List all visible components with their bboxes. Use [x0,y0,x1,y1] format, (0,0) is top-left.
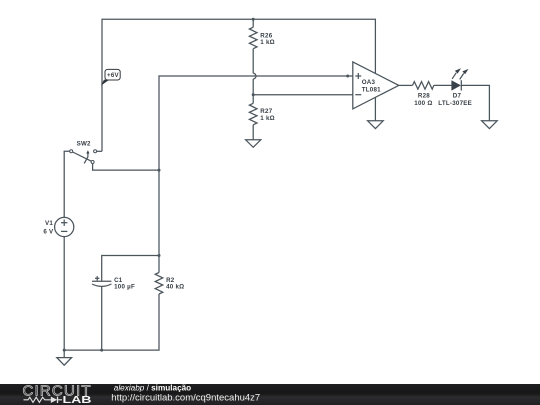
wire SW2 right to +6V vertical [97,150,102,152]
wire R26 bottom with hop over +input wire [252,49,254,74]
ground right of LED [482,121,498,129]
wire top rail +6V to op-amp V+ [102,19,375,151]
ground under R27 [246,140,261,148]
switch lever [73,152,92,161]
svg-text:SW2: SW2 [77,140,91,147]
wire R27 to ground [252,125,254,140]
resistor R28 [413,82,434,90]
wire noninverting input from node corner [159,76,353,170]
node dot C1/R2 top [158,254,161,257]
svg-text:1 kΩ: 1 kΩ [260,115,275,122]
node dot at op-amp + input [346,75,349,78]
logo diode [51,397,57,403]
wire C1 bottom to rail [101,287,103,351]
wire op-amp V- pin [374,97,376,121]
ground bottom-left [57,358,72,366]
resistor R2 [158,256,160,273]
svg-text:D7: D7 [453,92,462,99]
wire R28 to LED [434,84,452,86]
capacitor C1 [92,280,111,282]
resistor R27 [249,103,257,125]
svg-text:+6V: +6V [107,72,120,79]
ground under op-amp [368,121,384,129]
switch actuator arrow [84,153,88,163]
node dot rail/V1 [63,349,66,352]
wire R2 bottom to rail [64,294,159,350]
node dot rail/C1 [100,349,103,352]
node top-R26 junction [252,18,255,21]
+6V net flag [101,80,109,86]
svg-text:LTL-307EE: LTL-307EE [438,100,472,107]
svg-text:alexiabp / simulação: alexiabp / simulação [114,384,191,393]
op-amp plus marker [355,75,361,77]
voltage source V1 [55,217,74,236]
LED light arrows [452,73,456,79]
wire V1 bottom to rail [63,237,65,351]
wire SW2 pole to node column [93,164,159,171]
svg-text:OA3: OA3 [362,79,376,86]
switch terminals [70,150,73,153]
wire V1 to SW2 left [64,151,69,217]
wire R26 top pin [252,19,254,27]
resistor R26 [249,27,257,49]
wire rail to ground [63,350,65,358]
op-amp OA3 TL081 [353,62,399,109]
svg-text:http://circuitlab.com/cq9nteca: http://circuitlab.com/cq9ntecahu4z7 [111,393,260,404]
LED D7 [451,80,461,90]
capacitor C1 top wire [102,256,159,282]
wire LED cathode to ground [461,85,489,120]
op-amp minus marker [355,94,361,96]
node R26/R27 inverting junction [252,93,255,96]
wire op-amp output [399,84,413,86]
svg-text:100 µF: 100 µF [114,284,135,291]
svg-text:6 V: 6 V [43,228,54,235]
svg-text:V1: V1 [45,220,53,227]
node dot SW2/column junction [158,169,161,172]
logo resistor zigzag [24,397,51,402]
svg-text:1 kΩ: 1 kΩ [260,39,275,46]
svg-text:R28: R28 [418,92,430,99]
wire node column down [158,170,160,255]
svg-text:100 Ω: 100 Ω [414,100,432,107]
svg-text:LAB: LAB [63,395,92,405]
svg-text:TL081: TL081 [362,86,381,93]
svg-text:40 kΩ: 40 kΩ [166,284,184,291]
footer bar [0,384,540,405]
wire inverting input [253,94,353,96]
